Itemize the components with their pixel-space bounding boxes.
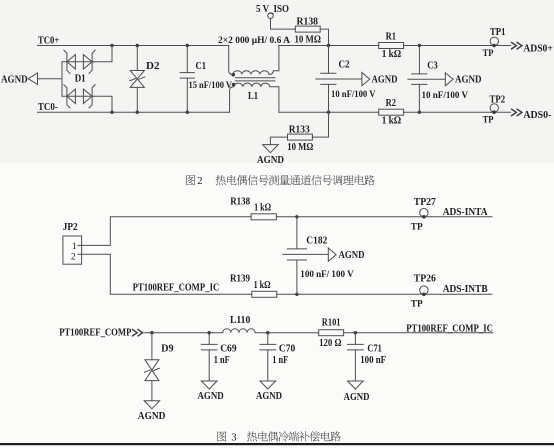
diode D9 TVS bbox=[151, 333, 153, 360]
wire AGND to D1 bbox=[38, 78, 63, 80]
svg-text:ADS0+: ADS0+ bbox=[523, 44, 553, 55]
svg-text:R1: R1 bbox=[386, 31, 396, 42]
svg-text:AGND: AGND bbox=[257, 155, 284, 166]
D1 pair left zener bar with tails bbox=[64, 84, 71, 108]
svg-text:D9: D9 bbox=[161, 343, 174, 354]
wire bottom rail right bbox=[279, 111, 511, 113]
ground AGND below C70 bbox=[260, 381, 276, 389]
svg-text:TP1: TP1 bbox=[490, 27, 505, 38]
svg-text:C1: C1 bbox=[196, 61, 207, 72]
svg-text:L1: L1 bbox=[248, 91, 258, 102]
power terminal 5 V_ISO bbox=[268, 13, 274, 19]
svg-text:1 kΩ: 1 kΩ bbox=[254, 202, 271, 213]
capacitor C71 bbox=[354, 333, 356, 345]
svg-text:C2: C2 bbox=[339, 60, 350, 71]
svg-text:PT100REF_COMP: PT100REF_COMP bbox=[59, 327, 131, 338]
svg-text:TP: TP bbox=[483, 49, 494, 59]
svg-text:JP2: JP2 bbox=[63, 222, 78, 233]
diode D2 bidirectional TVS bbox=[136, 46, 138, 71]
D1 pair right zener bar with tails bbox=[89, 84, 96, 108]
wire JP2 pin2 to rail bbox=[78, 254, 252, 294]
L1 core lines bbox=[235, 77, 276, 79]
D1 pair right zener bar with tails bbox=[89, 50, 96, 74]
capacitor C3 dual feedthrough bbox=[418, 46, 420, 74]
svg-text:TC0+: TC0+ bbox=[38, 35, 60, 46]
D1 pair left zener bar with tails bbox=[64, 50, 71, 74]
ground AGND below R133 bbox=[263, 145, 279, 153]
wire R138 to rail bbox=[320, 29, 328, 45]
svg-text:L110: L110 bbox=[230, 315, 250, 326]
svg-text:10 MΩ: 10 MΩ bbox=[287, 142, 313, 153]
svg-text:TP: TP bbox=[411, 300, 423, 310]
svg-text:C70: C70 bbox=[279, 343, 295, 354]
svg-text:R133: R133 bbox=[289, 124, 310, 135]
bottom scan bar bbox=[0, 443, 554, 445]
svg-text:5 V_ISO: 5 V_ISO bbox=[256, 4, 289, 15]
svg-text:AGND: AGND bbox=[256, 391, 282, 402]
testpoint TP26 bbox=[420, 286, 428, 294]
svg-text:AGND: AGND bbox=[138, 411, 166, 422]
svg-text:1: 1 bbox=[72, 242, 77, 252]
wire D1 center vertical bbox=[61, 62, 63, 97]
svg-text:1 nF: 1 nF bbox=[214, 355, 230, 366]
svg-text:1 kΩ: 1 kΩ bbox=[382, 115, 402, 126]
svg-text:ADS-INTA: ADS-INTA bbox=[443, 207, 489, 218]
wire mid top rail bbox=[276, 216, 492, 218]
svg-text:C69: C69 bbox=[220, 343, 236, 354]
svg-text:ADS-INTB: ADS-INTB bbox=[443, 284, 488, 295]
capacitor C69 bbox=[208, 333, 210, 345]
L1 polarity dot bottom bbox=[232, 83, 236, 87]
svg-text:TC0-: TC0- bbox=[38, 102, 58, 113]
ground AGND below C69 bbox=[201, 381, 217, 389]
ground AGND below C71 bbox=[348, 381, 364, 389]
ground AGND left flag bbox=[28, 73, 37, 85]
wire JP2 pin1 to rail bbox=[78, 217, 251, 246]
svg-text:TP: TP bbox=[411, 223, 423, 233]
svg-text:TP26: TP26 bbox=[414, 274, 436, 285]
resistor R1 bbox=[379, 43, 404, 49]
resistor R138 mid bbox=[251, 214, 276, 220]
svg-text:TP: TP bbox=[483, 116, 494, 126]
ground AGND below D9 bbox=[144, 401, 159, 409]
inductor L1 choke top winding bbox=[229, 46, 279, 75]
D1 pair left triangle bbox=[67, 89, 76, 103]
svg-text:100 nF: 100 nF bbox=[360, 355, 386, 366]
svg-text:C182: C182 bbox=[306, 235, 327, 246]
inductor L1 choke bottom winding bbox=[230, 83, 279, 112]
svg-text:100 nF/ 100 V: 100 nF/ 100 V bbox=[300, 269, 354, 279]
wire TC0+ top rail left bbox=[38, 45, 229, 47]
svg-text:C3: C3 bbox=[427, 61, 438, 72]
port ADS0- bbox=[512, 109, 522, 115]
svg-text:AGND: AGND bbox=[198, 391, 224, 402]
svg-text:C71: C71 bbox=[367, 343, 382, 354]
svg-text:1 kΩ: 1 kΩ bbox=[254, 280, 271, 291]
connector JP2 bbox=[63, 236, 82, 264]
wire mid bottom rail bbox=[277, 293, 492, 295]
ground AGND flag for C182 bbox=[328, 248, 336, 261]
resistor R101 bbox=[319, 330, 344, 336]
svg-text:AGND: AGND bbox=[455, 75, 482, 86]
node junction dots bottom rail left bbox=[110, 111, 113, 114]
wire top rail right bbox=[279, 45, 511, 47]
svg-text:2: 2 bbox=[71, 253, 76, 263]
D1 pair right triangle bbox=[83, 55, 92, 69]
wire 5V_ISO to R138 bbox=[271, 19, 296, 30]
wire bottom rail bbox=[144, 332, 493, 334]
svg-text:2: 2 bbox=[197, 176, 202, 187]
caption figure 3 bbox=[217, 431, 226, 441]
D1 pair left triangle bbox=[67, 55, 76, 69]
resistor R139 bbox=[252, 291, 277, 297]
svg-text:1 kΩ: 1 kΩ bbox=[382, 49, 402, 60]
D1 pair through wire bbox=[62, 61, 94, 63]
svg-text:10 nF/100 V: 10 nF/100 V bbox=[331, 89, 376, 99]
svg-text:PT100REF_COMP_IC: PT100REF_COMP_IC bbox=[133, 283, 220, 294]
D1 pair right triangle bbox=[83, 89, 92, 103]
svg-text:ADS0-: ADS0- bbox=[523, 110, 551, 121]
resistor R133 bbox=[312, 112, 328, 137]
wire D1 to bottom rail bbox=[94, 96, 113, 112]
svg-text:R2: R2 bbox=[386, 98, 396, 109]
ground AGND flag for C2 bbox=[362, 73, 370, 86]
svg-text:R101: R101 bbox=[322, 317, 341, 328]
svg-text:AGND: AGND bbox=[344, 392, 370, 403]
svg-text:3: 3 bbox=[231, 432, 236, 443]
svg-text:R138: R138 bbox=[230, 196, 250, 207]
svg-text:AGND: AGND bbox=[1, 75, 28, 86]
svg-text:D2: D2 bbox=[146, 61, 160, 72]
capacitor C2 dual feedthrough bbox=[328, 46, 330, 74]
port ADS0+ bbox=[512, 43, 522, 49]
svg-text:R139: R139 bbox=[230, 274, 250, 285]
testpoint TP27 bbox=[420, 208, 428, 216]
caption figure 2 bbox=[186, 175, 195, 185]
node junction dots top rail left bbox=[110, 44, 113, 47]
svg-text:10 MΩ: 10 MΩ bbox=[295, 35, 322, 46]
resistor R138 bbox=[295, 26, 320, 32]
testpoint TP1 bbox=[490, 37, 498, 45]
svg-text:PT100REF_COMP_IC: PT100REF_COMP_IC bbox=[406, 323, 493, 334]
wire D1 to top rail bbox=[94, 46, 113, 62]
wire TC0- bottom rail left bbox=[38, 111, 230, 113]
ground AGND flag for C3 bbox=[445, 73, 453, 86]
capacitor C1 bbox=[186, 46, 188, 73]
D1 pair through wire bbox=[62, 95, 94, 97]
resistor R2 bbox=[379, 109, 404, 115]
L1 polarity dot top bbox=[232, 73, 236, 77]
svg-text:10 nF/100 V: 10 nF/100 V bbox=[422, 90, 469, 100]
svg-text:2×2 000 μH/ 0.6 A: 2×2 000 μH/ 0.6 A bbox=[218, 35, 291, 45]
svg-text:AGND: AGND bbox=[339, 250, 365, 261]
svg-text:R138: R138 bbox=[297, 16, 319, 27]
svg-text:120 Ω: 120 Ω bbox=[319, 338, 341, 349]
svg-text:TP27: TP27 bbox=[414, 197, 436, 208]
capacitor C182 bbox=[296, 217, 298, 249]
svg-text:15 nF/100 V: 15 nF/100 V bbox=[189, 80, 233, 90]
inductor L110 bbox=[223, 329, 255, 333]
testpoint TP2 bbox=[490, 104, 498, 112]
svg-text:AGND: AGND bbox=[372, 74, 398, 85]
svg-text:1 nF: 1 nF bbox=[272, 355, 288, 366]
svg-text:TP2: TP2 bbox=[490, 95, 506, 106]
capacitor C70 bbox=[267, 333, 269, 345]
svg-text:D1: D1 bbox=[75, 74, 86, 85]
